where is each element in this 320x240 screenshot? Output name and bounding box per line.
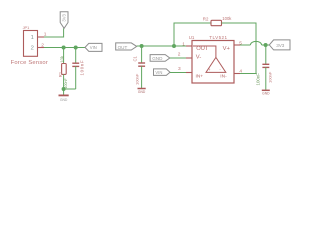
svg-text:10k: 10k <box>59 55 64 63</box>
junction node C3 top <box>140 44 144 48</box>
wire C2 top <box>75 48 77 64</box>
wire C3 bottom <box>141 66 143 88</box>
wire R1 bottom <box>63 74 65 89</box>
svg-text:TLV521: TLV521 <box>209 35 227 40</box>
svg-text:-: - <box>219 67 221 72</box>
net tag GND <box>150 55 170 62</box>
pin stub V+ <box>234 44 240 46</box>
pin stub IN- <box>234 73 240 75</box>
svg-text:GND: GND <box>262 92 270 96</box>
svg-text:1: 1 <box>182 41 185 47</box>
svg-text:3: 3 <box>178 66 181 72</box>
svg-text:JP1: JP1 <box>23 25 30 30</box>
ground left <box>59 95 69 102</box>
svg-text:V+: V+ <box>223 46 231 52</box>
svg-text:2: 2 <box>178 52 181 58</box>
net tag OUT <box>116 43 137 50</box>
svg-text:100nF: 100nF <box>255 73 260 86</box>
op-amp internal out line <box>193 46 216 57</box>
resistor R2 body feedback <box>211 20 222 25</box>
capacitor C4 plates <box>262 64 269 67</box>
resistor R1 body <box>62 64 67 75</box>
wire C4 bottom <box>265 67 267 89</box>
junction node ground left <box>62 87 66 91</box>
pin stub IN+ <box>186 72 192 74</box>
wire R1 top <box>63 48 65 64</box>
pin stub OUT <box>186 45 192 47</box>
svg-text:VIN: VIN <box>90 45 97 50</box>
svg-text:2: 2 <box>41 42 44 48</box>
svg-text:IN-: IN- <box>220 74 227 80</box>
wire hop over feedback <box>250 41 261 45</box>
supply symbol 3V3 left <box>60 12 68 29</box>
net tag IN right <box>154 69 171 76</box>
svg-text:C1: C1 <box>133 55 138 61</box>
svg-text:OUT: OUT <box>196 46 209 52</box>
svg-text:100nF: 100nF <box>64 78 68 89</box>
wire pin1 to supply <box>44 28 64 37</box>
svg-text:2: 2 <box>31 45 34 51</box>
svg-text:3V3: 3V3 <box>61 13 66 21</box>
wire OUT net <box>137 45 192 47</box>
svg-text:100nF: 100nF <box>80 60 85 76</box>
svg-text:OUT: OUT <box>118 45 128 50</box>
svg-text:R2: R2 <box>203 17 209 22</box>
ground middle <box>138 89 146 94</box>
wire C4 top <box>265 45 267 64</box>
svg-text:+: + <box>208 67 211 72</box>
wire V- net <box>170 57 192 59</box>
connector pin 2 stub <box>38 47 45 49</box>
wire V+ right segment <box>262 44 270 46</box>
wire pin2 to IN tag <box>44 47 86 49</box>
capacitor C2 plates <box>72 63 79 66</box>
junction node R1 top <box>62 46 66 50</box>
ground right <box>262 90 270 95</box>
wire feedback up <box>174 23 211 46</box>
svg-text:3V3: 3V3 <box>276 43 285 48</box>
svg-text:R1: R1 <box>58 71 63 77</box>
svg-text:IN+: IN+ <box>196 74 204 80</box>
connector pin 1 stub <box>38 36 45 38</box>
svg-text:U1: U1 <box>189 35 195 40</box>
wire IN+ net <box>170 72 192 74</box>
svg-text:VIN: VIN <box>155 70 162 75</box>
svg-text:GND: GND <box>152 56 163 61</box>
connector JP1 body <box>24 31 38 57</box>
wire bottom link R1-C2 <box>64 88 76 90</box>
svg-text:4: 4 <box>239 68 242 74</box>
wire feedback right and down to IN- <box>222 23 257 74</box>
svg-text:100k: 100k <box>222 16 232 21</box>
svg-text:Force Sensor: Force Sensor <box>11 60 48 66</box>
capacitor C3 plates <box>138 63 145 66</box>
svg-text:GND: GND <box>60 98 68 102</box>
wire V+ left segment <box>240 44 250 46</box>
wire ground stub left <box>63 89 65 95</box>
op-amp U1 box <box>192 41 234 84</box>
junction node V+ cap <box>264 43 268 47</box>
supply tag 3V3 right <box>269 40 290 50</box>
wire C2 bottom <box>75 66 77 89</box>
svg-text:GND: GND <box>138 90 146 94</box>
svg-text:100nF: 100nF <box>134 73 139 85</box>
wire C3 top <box>141 46 143 63</box>
svg-text:1: 1 <box>31 35 34 41</box>
op-amp triangle <box>206 57 226 72</box>
net tag IN left <box>85 43 102 51</box>
junction node C2 top <box>74 46 78 50</box>
svg-text:V-: V- <box>196 54 202 60</box>
junction node feedback tap <box>172 44 176 48</box>
pin stub V- <box>186 57 192 59</box>
svg-text:100nF: 100nF <box>267 71 272 83</box>
